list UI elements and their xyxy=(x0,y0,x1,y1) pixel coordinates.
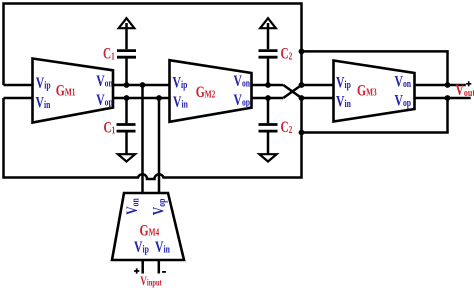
label: C2 bottom xyxy=(281,118,293,135)
wire: C2 bottom to ground xyxy=(267,132,270,153)
node: C2 bottom junction xyxy=(265,95,271,101)
label: GM2 Von xyxy=(234,73,251,90)
label: GM4 Vin xyxy=(155,240,170,257)
wire: crossover diagonal upper xyxy=(283,85,301,98)
wire: GM2 Vop to crossover xyxy=(251,97,284,100)
wire: GM3 Vip input xyxy=(302,84,336,87)
node: Vop output junction xyxy=(445,95,451,101)
node: GM4 Von tap xyxy=(140,82,146,88)
label: GM2 name xyxy=(196,85,216,102)
label: GM4 name xyxy=(140,223,160,240)
label: C2 top xyxy=(281,45,293,62)
wire: GM4 Vip input from Vinput+ xyxy=(141,260,144,274)
wire: GM4 Von output up to first stage Von wire xyxy=(141,85,144,193)
node: top feedback junction xyxy=(299,49,305,55)
wire: C1 top to Von node xyxy=(125,59,128,86)
capacitor C1 top plates xyxy=(117,51,136,58)
capacitor C1 bottom plates xyxy=(117,125,136,132)
capacitor C2 top plates xyxy=(259,51,278,58)
wire: GM4 Vop output up to first stage Vop wire xyxy=(158,98,161,193)
node: C1 bottom junction xyxy=(124,95,130,101)
label: GM1 name xyxy=(56,83,76,100)
op-amp GM1 xyxy=(33,59,114,123)
wire: VDD to C1 top xyxy=(125,23,128,49)
label: GM4 Von rotated xyxy=(125,198,142,215)
label: Vout xyxy=(455,82,474,99)
label: GM2 Vip xyxy=(173,75,188,92)
wire: GM1 Von to GM2 xyxy=(112,84,171,87)
wire: GM3 Vop output to Vout- xyxy=(414,97,471,100)
wire: GM1 Vop to GM2 xyxy=(112,97,171,100)
label: Vinput plus sign xyxy=(134,268,139,273)
ground symbol below C1 xyxy=(118,154,135,161)
wire: Vop node to C1 bottom xyxy=(125,98,128,123)
wire: C2 top to Von node xyxy=(267,59,270,86)
label: GM1 Vip xyxy=(36,75,51,92)
wire: GM3 Von output to Vout+ xyxy=(414,84,466,87)
node: C1 top junction xyxy=(124,82,130,88)
label: GM1 Vop xyxy=(96,92,113,109)
wire: GM2 Von to crossover xyxy=(251,84,284,87)
node: crossover top junction xyxy=(299,82,305,88)
wire: C1 bottom to ground xyxy=(125,132,128,153)
power symbol VDD arrow above C1 xyxy=(119,18,135,28)
wire: outer feedback loop top (left edge upper + top edge + right vertical) xyxy=(4,4,302,86)
node: crossover bottom junction xyxy=(299,95,305,101)
node: bottom feedback junction xyxy=(299,130,305,136)
label: C1 top xyxy=(103,45,115,62)
label: Vout plus sign xyxy=(466,81,471,86)
label: GM3 name xyxy=(357,83,377,100)
label: Vinput minus sign xyxy=(162,271,166,273)
wire: GM4 Vin input from Vinput- xyxy=(158,260,161,274)
wire: GM1 Vip input xyxy=(4,84,35,87)
wire: GM3 local feedback top xyxy=(302,51,448,85)
wire: Vop node to C2 bottom xyxy=(267,98,270,123)
power symbol VDD arrow above C2 xyxy=(260,18,276,28)
op-amp GM4 xyxy=(112,193,184,260)
ground symbol below C2 xyxy=(259,154,276,161)
label: GM1 Von xyxy=(96,73,113,90)
capacitor C2 bottom plates xyxy=(259,125,278,132)
label: GM3 Vin xyxy=(336,94,351,111)
label: GM3 Von xyxy=(395,74,412,91)
wire: VDD to C2 top xyxy=(267,23,270,49)
label: GM3 Vip xyxy=(336,75,351,92)
label: GM1 Vin xyxy=(36,95,51,112)
wire: outer feedback loop bottom (left edge lower + bottom edge with hops + right vertical) xyxy=(4,98,302,179)
wire: GM3 local feedback bottom xyxy=(302,98,448,133)
label: Vinput xyxy=(140,275,162,289)
op-amp GM3 xyxy=(334,61,415,122)
label: GM2 Vin xyxy=(173,94,188,111)
node: GM4 Vop tap xyxy=(156,95,162,101)
label: GM4 Vop rotated xyxy=(151,199,168,216)
node: C2 top junction xyxy=(265,82,271,88)
label: GM2 Vop xyxy=(234,92,251,109)
label: GM4 Vip xyxy=(134,240,149,257)
wire: crossover diagonal lower xyxy=(283,85,301,98)
wire: GM3 Vin input xyxy=(302,97,336,100)
label: GM3 Vop xyxy=(395,93,412,110)
label: C1 bottom xyxy=(104,119,116,136)
op-amp GM2 xyxy=(170,60,252,122)
wire: GM1 Vin input xyxy=(4,97,35,100)
node: Von output junction xyxy=(445,82,451,88)
